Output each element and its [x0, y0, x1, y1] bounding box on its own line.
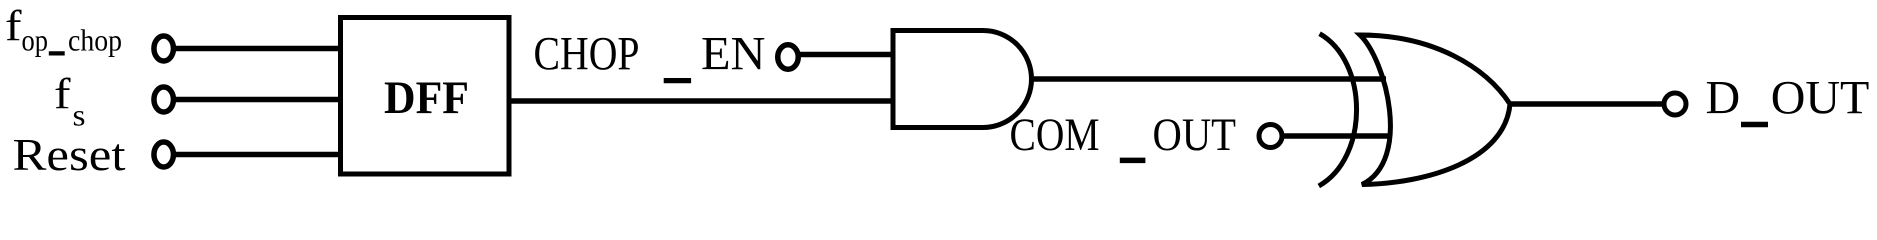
terminal circle CHOP_EN: [778, 45, 799, 70]
svg-text:s: s: [73, 98, 86, 133]
terminal circle D_OUT: [1664, 93, 1686, 115]
svg-text:OUT: OUT: [1153, 109, 1237, 161]
terminal circle COM_OUT: [1259, 125, 1282, 148]
terminal circle input 1: [154, 36, 174, 61]
wire DFF output to AND input B: [509, 98, 895, 104]
svg-text:chop: chop: [68, 23, 122, 58]
svg-text:D: D: [1706, 72, 1741, 125]
wire input 3: [175, 152, 341, 158]
label f_s: [54, 71, 86, 133]
svg-text:CHOP: CHOP: [534, 28, 640, 81]
terminal circle input 2: [154, 87, 174, 112]
wire XOR output to D_OUT: [1510, 101, 1666, 107]
node CHOP_EN label: [534, 28, 766, 81]
XOR gate U3 front arc: [1319, 34, 1357, 186]
node COM_OUT label: [1010, 109, 1237, 161]
node D_OUT label: [1706, 72, 1870, 125]
wire CHOP_EN to AND input A: [799, 52, 895, 58]
svg-text:Reset: Reset: [13, 129, 126, 180]
svg-text:f: f: [5, 3, 22, 50]
svg-text:op: op: [22, 23, 49, 58]
wire COM_OUT to XOR input B: [1283, 133, 1388, 139]
terminal circle input 3: [154, 142, 174, 167]
svg-text:DFF: DFF: [384, 72, 469, 124]
svg-text:OUT: OUT: [1771, 72, 1870, 125]
label f_op_chop: [5, 3, 122, 58]
wire input 2: [175, 97, 341, 103]
wire AND output to XOR input A: [1031, 76, 1386, 82]
wire input 1: [175, 46, 341, 52]
svg-text:f: f: [54, 71, 71, 118]
XOR gate U3 body: [1360, 35, 1510, 185]
svg-text:COM: COM: [1010, 109, 1100, 161]
svg-text:EN: EN: [701, 28, 766, 81]
AND gate U2: [893, 31, 1031, 128]
DFF box U1: [341, 18, 510, 175]
